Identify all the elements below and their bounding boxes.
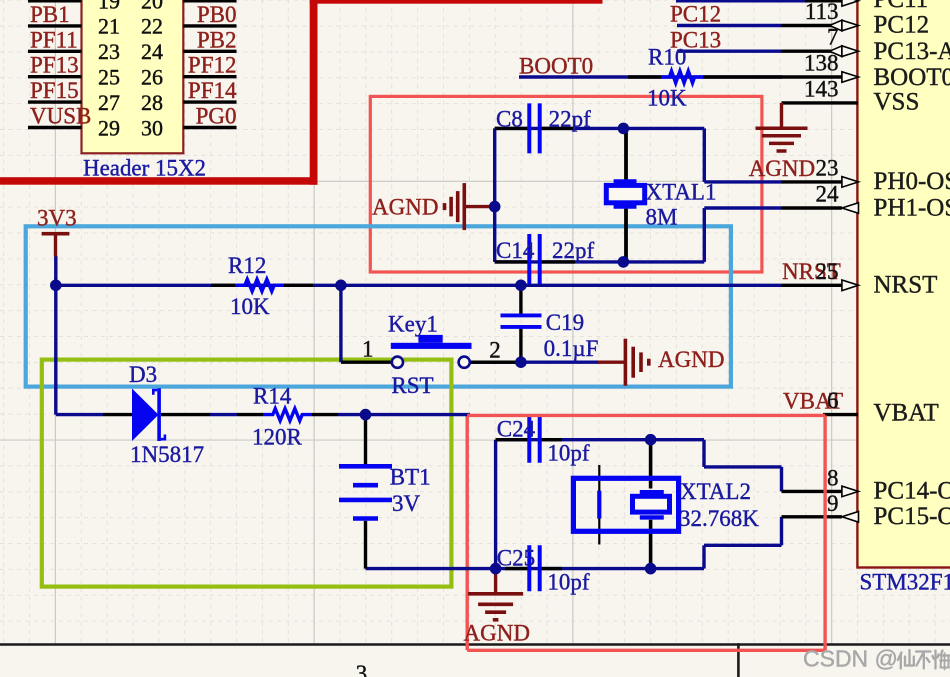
svg-text:R12: R12	[228, 253, 266, 278]
svg-text:D3: D3	[129, 362, 157, 387]
svg-text:Key1: Key1	[388, 312, 438, 337]
svg-text:3: 3	[356, 661, 368, 677]
svg-text:10pf: 10pf	[547, 441, 590, 466]
svg-text:PF11: PF11	[30, 27, 78, 52]
svg-text:PG0: PG0	[196, 104, 237, 129]
svg-text:RST: RST	[391, 373, 433, 398]
svg-text:28: 28	[141, 90, 163, 115]
svg-text:VUSB: VUSB	[30, 104, 91, 129]
svg-text:25: 25	[816, 259, 839, 284]
svg-text:113: 113	[805, 0, 839, 24]
svg-text:PH0-OSC_IN: PH0-OSC_IN	[874, 168, 950, 195]
svg-text:AGND: AGND	[658, 347, 724, 372]
svg-text:PC12: PC12	[874, 12, 930, 39]
svg-text:NRST: NRST	[874, 271, 938, 298]
svg-text:STM32F103ZET6: STM32F103ZET6	[860, 569, 950, 594]
svg-text:BOOT0: BOOT0	[519, 53, 593, 78]
svg-text:AGND: AGND	[749, 156, 815, 181]
svg-text:25: 25	[98, 65, 120, 90]
svg-text:1N5817: 1N5817	[130, 442, 204, 467]
svg-text:XTAL1: XTAL1	[646, 179, 717, 204]
svg-text:C14: C14	[496, 238, 535, 263]
svg-text:PF12: PF12	[188, 53, 237, 78]
svg-text:27: 27	[98, 90, 120, 115]
svg-text:22: 22	[141, 14, 163, 39]
svg-text:PC12: PC12	[670, 2, 721, 27]
svg-text:R10: R10	[648, 45, 686, 70]
svg-text:138: 138	[804, 51, 839, 76]
svg-text:24: 24	[141, 39, 163, 64]
svg-text:Header 15X2: Header 15X2	[83, 155, 206, 180]
svg-text:29: 29	[98, 115, 120, 140]
svg-text:22pf: 22pf	[549, 107, 592, 132]
svg-text:PB0: PB0	[197, 2, 237, 27]
svg-text:PB2: PB2	[197, 27, 237, 52]
svg-text:8: 8	[827, 465, 839, 490]
svg-text:8M: 8M	[646, 205, 678, 230]
svg-text:22pf: 22pf	[552, 238, 595, 263]
svg-text:PC13-ANTI_TAMP: PC13-ANTI_TAMP	[874, 38, 950, 65]
svg-text:BOOT0: BOOT0	[874, 64, 950, 91]
svg-text:PC14-OSC32_IN: PC14-OSC32_IN	[874, 478, 950, 505]
svg-text:C25: C25	[497, 546, 535, 571]
svg-text:BT1: BT1	[390, 464, 431, 489]
svg-text:VSS: VSS	[874, 89, 920, 116]
svg-text:AGND: AGND	[464, 620, 530, 645]
svg-text:C8: C8	[496, 107, 523, 132]
svg-text:23: 23	[98, 39, 120, 64]
svg-text:19: 19	[98, 0, 120, 13]
svg-text:XTAL2: XTAL2	[680, 479, 751, 504]
svg-text:9: 9	[827, 491, 839, 516]
svg-text:1: 1	[362, 337, 374, 362]
svg-text:24: 24	[816, 182, 840, 207]
svg-text:32.768K: 32.768K	[679, 506, 759, 531]
svg-text:7: 7	[827, 25, 839, 50]
svg-text:PF14: PF14	[188, 78, 237, 103]
svg-text:C19: C19	[546, 310, 584, 335]
svg-text:23: 23	[816, 155, 839, 180]
svg-text:PH1-OSC_OUT: PH1-OSC_OUT	[874, 194, 950, 221]
svg-text:143: 143	[804, 76, 839, 101]
svg-text:30: 30	[141, 115, 163, 140]
svg-text:PC15-OSC32_OUT: PC15-OSC32_OUT	[874, 503, 950, 530]
svg-text:R14: R14	[253, 383, 292, 408]
svg-text:10K: 10K	[647, 86, 687, 111]
svg-text:CSDN @: CSDN @	[803, 646, 898, 672]
svg-text:21: 21	[98, 14, 120, 39]
svg-text:PF13: PF13	[30, 53, 79, 78]
svg-text:0.1µF: 0.1µF	[544, 336, 599, 361]
svg-text:VBAT: VBAT	[874, 400, 939, 427]
svg-text:C24: C24	[497, 417, 536, 442]
svg-text:120R: 120R	[252, 425, 303, 450]
svg-text:3V3: 3V3	[37, 205, 77, 230]
svg-text:6: 6	[827, 388, 839, 413]
svg-text:20: 20	[141, 0, 163, 13]
svg-text:2: 2	[489, 338, 501, 363]
svg-text:10pf: 10pf	[547, 570, 590, 595]
svg-text:PF15: PF15	[30, 78, 79, 103]
svg-text:PB1: PB1	[30, 2, 70, 27]
svg-text:26: 26	[141, 65, 163, 90]
svg-text:10K: 10K	[230, 294, 270, 319]
svg-text:3V: 3V	[392, 491, 421, 516]
svg-text:AGND: AGND	[372, 194, 438, 219]
